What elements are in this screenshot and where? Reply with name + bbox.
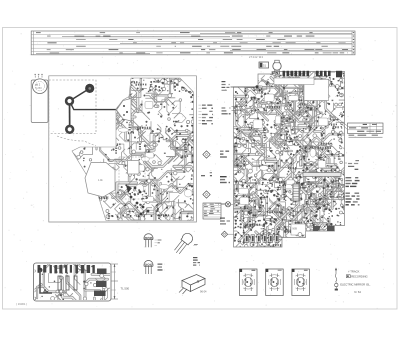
svg-text:4.250: 4.250 <box>35 86 42 90</box>
svg-text:TL 500: TL 500 <box>121 287 130 291</box>
svg-text:1.0k: 1.0k <box>98 179 103 182</box>
svg-text:ad 2: ad 2 <box>35 83 41 87</box>
svg-text:N09: N09 <box>293 228 298 231</box>
svg-text:+ TRACK: + TRACK <box>348 269 360 273</box>
svg-text:27442 W4: 27442 W4 <box>249 55 264 59</box>
svg-text:( 19301 ): ( 19301 ) <box>16 302 27 306</box>
svg-text:96 04: 96 04 <box>200 290 207 294</box>
svg-text:RECORDING: RECORDING <box>351 275 367 279</box>
svg-text:ELECTRIC MIRROR ISL.: ELECTRIC MIRROR ISL. <box>340 283 371 287</box>
svg-text:9 / 64: 9 / 64 <box>354 290 361 294</box>
svg-text:2.5W: 2.5W <box>103 196 109 199</box>
